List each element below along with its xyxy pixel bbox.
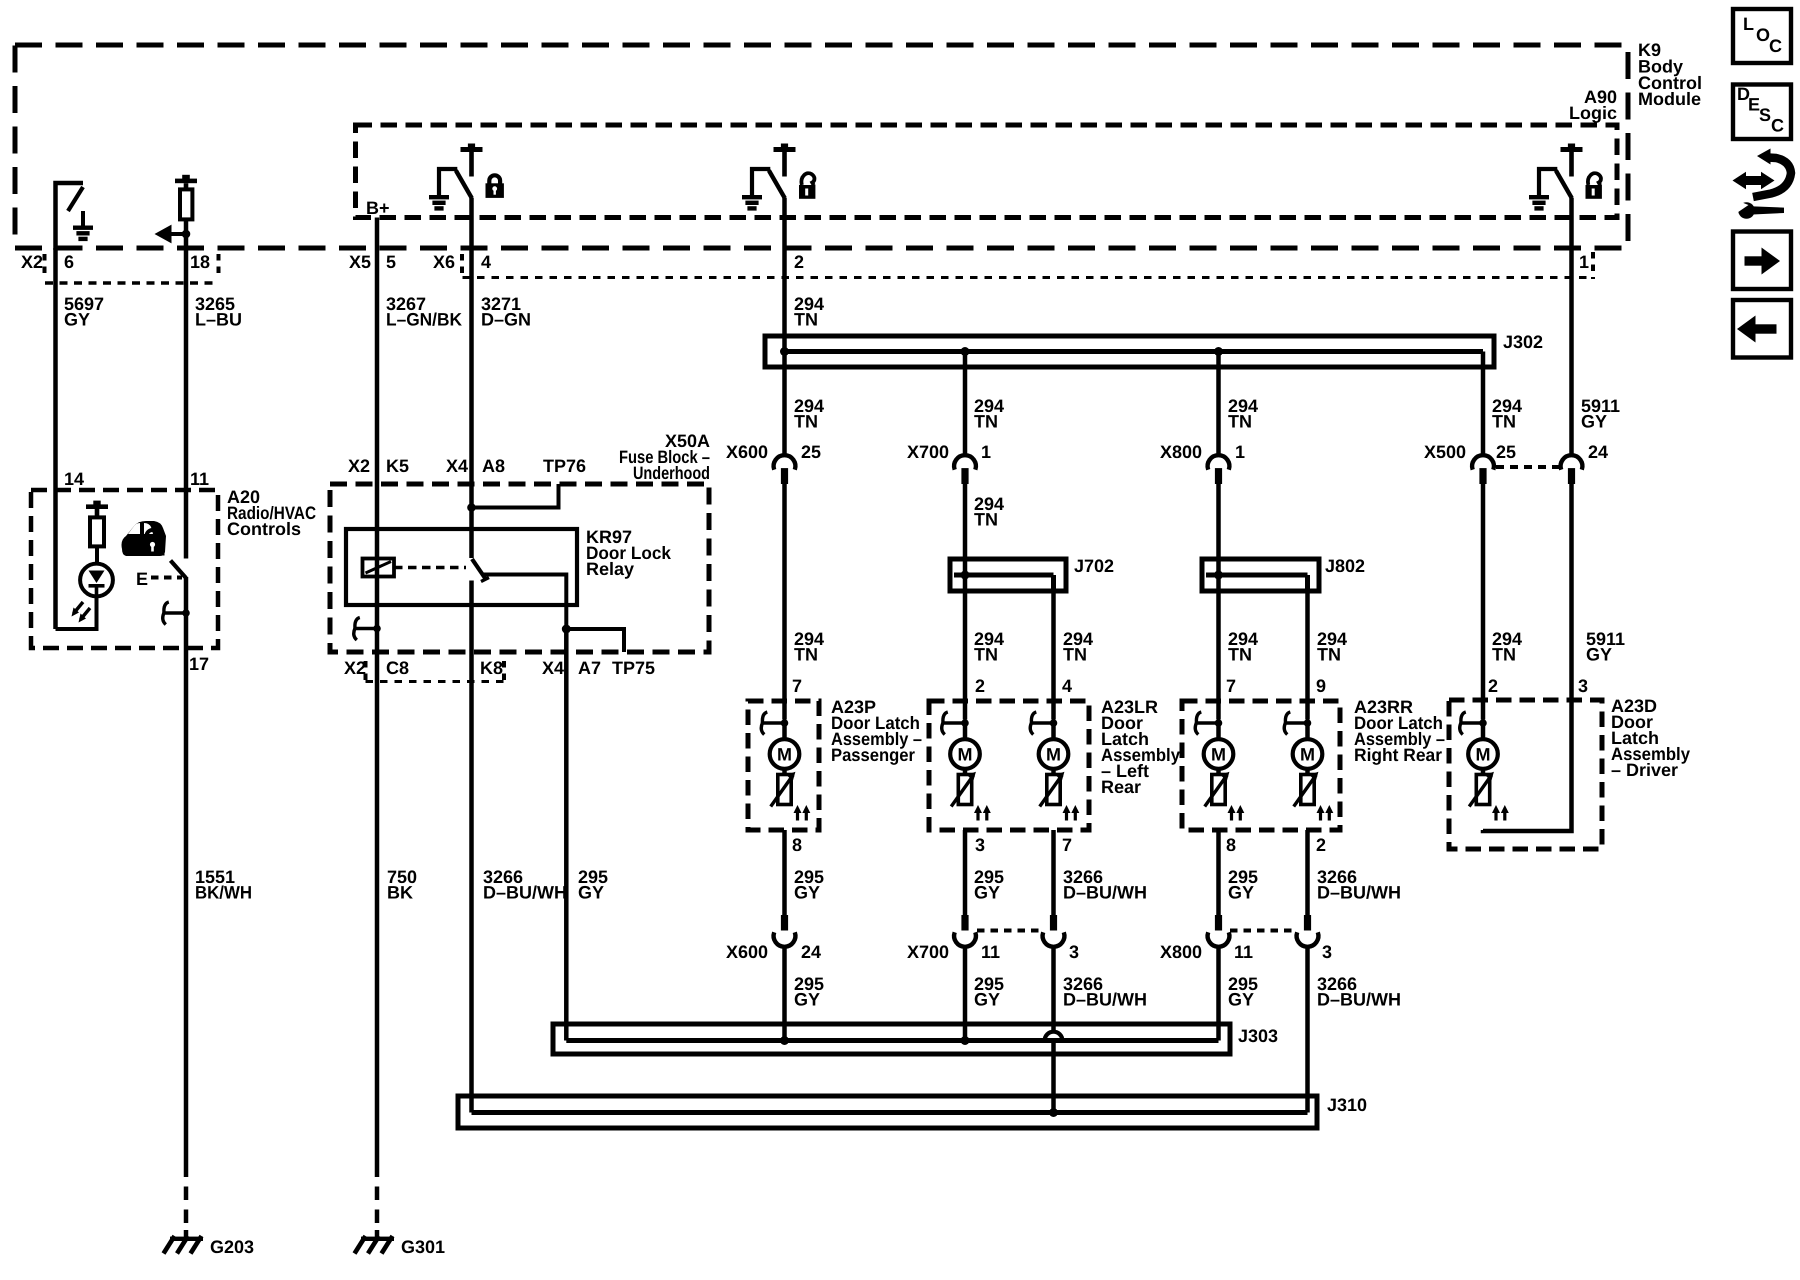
wire 294 TN X700-1 through J702 to A23LR pin 2 (965, 484, 1004, 701)
wire relay NO contact to A7/TP75 (483, 575, 566, 630)
svg-text:G203: G203 (210, 1237, 254, 1257)
wire dashed tail of 750 BK to ground G301 (375, 1187, 380, 1238)
connector X6 pin row of K9 (433, 252, 1593, 279)
svg-text:X2: X2 (348, 456, 370, 476)
connector X500 pin 24 (1561, 442, 1608, 484)
wire 295 GY X800-11 to J303 right end (1219, 948, 1259, 1041)
svg-text:TN: TN (1228, 645, 1252, 665)
svg-text:D–BU/WH: D–BU/WH (1317, 883, 1401, 903)
svg-text:TN: TN (1492, 412, 1516, 432)
resistor R2 with supply T inside A20 (86, 501, 108, 564)
svg-text:17: 17 (189, 654, 209, 674)
wire 5697 GY from BCM X2-6 to A20 pin 14 (56, 248, 105, 629)
motor M unlock actuator A23LR (942, 701, 991, 821)
icon box DESC (navigation sidebar) (1733, 84, 1791, 139)
svg-text:Module: Module (1638, 89, 1701, 109)
test point TP76 stub wire (472, 484, 559, 508)
wire 294 TN J302 to X500-25 (1483, 352, 1522, 455)
svg-text:BK/WH: BK/WH (195, 883, 252, 903)
fuse block bottom pin labels X2-C8, K8, X4-A7, TP75 (344, 658, 655, 682)
wire 3266 D-BU/WH X700-3 to J310 (hops over J303) (1045, 948, 1147, 1113)
icon open padlock (driver unlock command) (1586, 173, 1602, 199)
svg-text:L: L (1743, 14, 1754, 34)
wire 3266 D-BU/WH fuse block K8 to J310 (472, 652, 568, 1113)
svg-text:GY: GY (1586, 645, 1612, 665)
svg-text:24: 24 (1588, 442, 1608, 462)
svg-text:X700: X700 (907, 942, 949, 962)
svg-text:J310: J310 (1327, 1095, 1367, 1115)
svg-text:24: 24 (801, 942, 821, 962)
svg-text:GY: GY (1581, 412, 1607, 432)
wire dotted bridge X500 25-24 (1496, 465, 1560, 469)
svg-text:Underhood: Underhood (633, 463, 710, 483)
icon box back arrow (1733, 300, 1791, 358)
wire 295 GY X700-11 to J303 (965, 948, 1004, 1041)
wire 3266 D-BU/WH X800-3 to J310 right end (1308, 948, 1402, 1113)
dashed actuation link coil to armature (394, 566, 466, 569)
svg-text:L–GN/BK: L–GN/BK (386, 310, 462, 330)
svg-text:Controls: Controls (227, 519, 301, 539)
svg-text:L–BU: L–BU (195, 310, 242, 330)
svg-text:A7: A7 (578, 658, 601, 678)
svg-text:GY: GY (794, 883, 820, 903)
svg-text:TN: TN (794, 645, 818, 665)
splice pack J310 (bus bar) (458, 1095, 1367, 1128)
svg-text:TP75: TP75 (612, 658, 655, 678)
wire 294 TN from BCM X6-2 down through J302 to X600-25 (785, 198, 825, 455)
arrow output node (BCM pin X2-18) (155, 225, 191, 244)
svg-text:Rear: Rear (1101, 777, 1141, 797)
motor M unlock actuator A23RR (1195, 701, 1244, 821)
svg-text:D–BU/WH: D–BU/WH (1317, 990, 1401, 1010)
wire 294 TN J802 to A23RR pin 9 (1308, 575, 1348, 701)
resistor R1 with output arrow (BCM pin X2-18 driver) (175, 175, 197, 238)
wire 294 TN X500-25 to A23D pin 2 (1483, 484, 1522, 700)
wire 5911 GY from BCM X6-1 down to X500-24 (1572, 198, 1621, 455)
wire 1551 BK/WH A20-17 to ground G203 (186, 648, 252, 1237)
wire LED chain to pin 14 wire (56, 597, 97, 630)
node junction w6-J302 (780, 347, 789, 356)
module A23RR Door Latch Assembly - Right Rear (dashed enclosure) (1182, 697, 1445, 830)
node junction w6-J303 (780, 1036, 789, 1045)
svg-text:D–BU/WH: D–BU/WH (483, 883, 567, 903)
svg-text:D–BU/WH: D–BU/WH (1063, 990, 1147, 1010)
svg-text:J302: J302 (1503, 332, 1543, 352)
connector X800 pin 11 (1160, 915, 1253, 962)
module A20 Radio/HVAC Controls (dashed enclosure) (31, 487, 316, 648)
svg-text:X500: X500 (1424, 442, 1466, 462)
module A23P Door Latch Assembly - Passenger (dashed enclosure) (748, 697, 922, 830)
svg-text:– Driver: – Driver (1611, 760, 1678, 780)
svg-text:X800: X800 (1160, 442, 1202, 462)
svg-text:X6: X6 (433, 252, 455, 272)
svg-text:7: 7 (792, 676, 802, 696)
connector X700 pin 1 (907, 442, 991, 484)
svg-text:X4: X4 (446, 456, 468, 476)
wire dotted bridge X700 11-3 (977, 929, 1042, 933)
wire 3271 D-GN from BCM X6-4 to fuse block A8 (relay common) (472, 198, 532, 558)
svg-text:6: 6 (64, 252, 74, 272)
svg-text:GY: GY (64, 310, 90, 330)
connector X800 pin 3 (1297, 915, 1332, 962)
icon diagnostic double-arrow with wrench (1733, 149, 1792, 219)
wire 294 TN J302 to X800-1 (1219, 352, 1259, 455)
svg-text:Relay: Relay (586, 559, 634, 579)
wire 5911 GY X500-24 to A23D pin 3 (1572, 484, 1626, 700)
svg-text:8: 8 (792, 835, 802, 855)
icon box forward arrow (1733, 232, 1791, 290)
wire relay armature to K8 pin (469, 581, 474, 653)
relay KR97 Door Lock Relay (solid box) (346, 527, 672, 605)
motor M door lock actuator A23P (761, 701, 810, 821)
svg-text:A8: A8 (482, 456, 505, 476)
ground G301 (chassis) (355, 1236, 446, 1257)
module A90 Logic (dashed enclosure inside K9) (356, 87, 1618, 218)
svg-text:Logic: Logic (1569, 103, 1617, 123)
icon closed padlock (lock command) (486, 175, 504, 198)
wire 3267 L-GN/BK from B+ through X5-5 to fuse block K5 (relay coil) (377, 218, 462, 653)
svg-text:11: 11 (1234, 942, 1253, 962)
svg-text:8: 8 (1226, 835, 1236, 855)
transistor Q3 driver-door unlock output driver with ground (BCM pin X6-1) (1529, 144, 1583, 211)
relay coil KR97 (363, 559, 395, 577)
svg-text:C: C (1769, 36, 1782, 56)
svg-text:C8: C8 (386, 658, 409, 678)
svg-text:GY: GY (974, 990, 1000, 1010)
svg-text:GY: GY (794, 990, 820, 1010)
svg-text:S: S (1759, 105, 1771, 125)
svg-text:Right Rear: Right Rear (1354, 745, 1442, 765)
splice pack J702 (bus bar) (950, 556, 1114, 591)
splice pack J303 (bus bar) (553, 1024, 1278, 1054)
svg-text:X4: X4 (542, 658, 564, 678)
svg-text:TN: TN (974, 510, 998, 530)
module A23LR Door Latch Assembly - Left Rear (dashed enclosure) (929, 697, 1180, 830)
svg-text:4: 4 (481, 252, 491, 272)
svg-text:9: 9 (1316, 676, 1326, 696)
wire 294 TN J702 to A23LR pin 4 (1054, 575, 1094, 701)
switch S1 door-lock status switch to ground (BCM pin X2-6) (56, 183, 94, 250)
svg-text:J303: J303 (1238, 1026, 1278, 1046)
node junction w9-J302 (1214, 347, 1223, 356)
svg-text:11: 11 (981, 942, 1000, 962)
wire 295 GY A23P-8 to X600-24 (785, 830, 825, 915)
svg-text:GY: GY (578, 883, 604, 903)
svg-text:K8: K8 (480, 658, 503, 678)
icon car with padlock (lock indicator) inside A20 (122, 521, 167, 556)
connector X700 pin 3 (1043, 915, 1079, 962)
svg-text:3: 3 (1069, 942, 1079, 962)
node junction w7-J302 (961, 347, 970, 356)
label E (switch position) with dashed link (136, 569, 182, 589)
svg-text:D–BU/WH: D–BU/WH (1063, 883, 1147, 903)
node junction A7 output (562, 625, 571, 634)
wire 750 BK fuse block C8 to ground G301 (377, 652, 417, 1177)
motor M lock actuator A23RR (1284, 701, 1333, 821)
svg-text:X2: X2 (344, 658, 366, 678)
node junction w7-J702 (961, 571, 970, 580)
svg-text:Passenger: Passenger (831, 745, 915, 765)
connector X600 pin 25 (726, 442, 821, 484)
svg-text:TN: TN (794, 412, 818, 432)
transistor Q2 unlock output driver with ground (BCM pin X6-2) (742, 144, 796, 211)
test point TP75 stub wire (566, 629, 624, 652)
relay armature blade (switch) (472, 559, 489, 582)
svg-text:1: 1 (981, 442, 991, 462)
icon open padlock (unlock command) (799, 173, 815, 199)
svg-text:3: 3 (975, 835, 985, 855)
wire 294 TN J302 to X700-1 (965, 352, 1004, 455)
connector X600 pin 24 (726, 915, 821, 962)
svg-text:D–GN: D–GN (481, 310, 531, 330)
svg-text:11: 11 (190, 469, 209, 489)
svg-text:GY: GY (974, 883, 1000, 903)
terminal hook on relay coil wire (pin C8) (354, 618, 381, 641)
svg-text:1: 1 (1579, 252, 1589, 272)
svg-text:7: 7 (1226, 676, 1236, 696)
svg-text:TN: TN (1228, 412, 1252, 432)
svg-text:X600: X600 (726, 942, 768, 962)
svg-text:J702: J702 (1074, 556, 1114, 576)
svg-text:14: 14 (64, 469, 84, 489)
svg-text:K5: K5 (386, 456, 409, 476)
svg-text:2: 2 (1316, 835, 1326, 855)
svg-text:TN: TN (794, 310, 818, 330)
svg-text:X700: X700 (907, 442, 949, 462)
svg-text:B+: B+ (366, 198, 390, 218)
wire 295 GY X600-24 to J303 (785, 948, 825, 1041)
wire 3265 L-BU from BCM X2-18 to A20 pin 11 (186, 238, 242, 559)
svg-text:TN: TN (974, 412, 998, 432)
svg-text:TN: TN (1063, 645, 1087, 665)
switch S2 door lock switch inside A20 (171, 561, 187, 649)
icon box LOC (navigation sidebar) (1733, 9, 1791, 63)
svg-text:TN: TN (1492, 645, 1516, 665)
fuse block top pin labels X2-K5, X4-A8, TP76 (348, 456, 586, 476)
node junction TP76-A8 (467, 503, 476, 512)
wire 295 GY fuse block A7 to J303 (566, 629, 608, 1041)
connector X700 pin 11 (907, 915, 1000, 962)
motor M lock actuator A23LR (1030, 701, 1079, 821)
svg-text:C: C (1771, 116, 1784, 136)
svg-text:18: 18 (190, 252, 210, 272)
wire internal return A23D motor to pin 3 (1483, 700, 1572, 831)
svg-text:O: O (1756, 25, 1770, 45)
svg-text:4: 4 (1062, 676, 1072, 696)
wire dotted bridge X800 11-3 (1230, 929, 1296, 933)
svg-text:2: 2 (1488, 676, 1498, 696)
svg-text:25: 25 (1496, 442, 1516, 462)
svg-text:2: 2 (794, 252, 804, 272)
svg-text:5: 5 (386, 252, 396, 272)
node junction w7-J303 (961, 1036, 970, 1045)
svg-text:3: 3 (1578, 676, 1588, 696)
LED indicator lamp inside A20 (72, 564, 113, 623)
svg-text:GY: GY (1228, 883, 1254, 903)
connector X500 pin 25 (1424, 442, 1516, 484)
module X50A Fuse Block - Underhood (dashed enclosure) (330, 431, 710, 652)
svg-text:G301: G301 (401, 1237, 445, 1257)
wire 295 GY A23RR-8 to X800-11 (1219, 830, 1259, 915)
wire 3266 D-BU/WH A23RR-2 to X800-3 (1308, 830, 1402, 915)
node junction w9-J802 (1214, 571, 1223, 580)
connector X5 pin 5 label (349, 252, 396, 272)
svg-text:2: 2 (975, 676, 985, 696)
module A23D Door Latch Assembly - Driver (dashed enclosure) (1449, 696, 1690, 849)
splice pack J302 (bus bar) (765, 332, 1543, 367)
svg-text:X2: X2 (21, 252, 43, 272)
ground G203 (chassis) (164, 1236, 255, 1257)
svg-text:3: 3 (1322, 942, 1332, 962)
svg-text:TN: TN (974, 645, 998, 665)
connector X2 pin row of K9 (21, 252, 219, 283)
svg-text:25: 25 (801, 442, 821, 462)
module K9 Body Control Module (dashed enclosure) (15, 40, 1702, 248)
wire 3266 D-BU/WH A23LR-7 to X700-3 (1054, 830, 1148, 915)
svg-text:TN: TN (1317, 645, 1341, 665)
terminal hook on switch output (pin 17) (163, 602, 190, 625)
svg-text:X600: X600 (726, 442, 768, 462)
svg-text:GY: GY (1228, 990, 1254, 1010)
wire 295 GY A23LR-3 to X700-11 (965, 830, 1004, 915)
svg-text:TP76: TP76 (543, 456, 586, 476)
wire 294 TN X800-1 through J802 to A23RR pin 7 (1219, 484, 1259, 701)
svg-text:1: 1 (1235, 442, 1245, 462)
svg-text:BK: BK (387, 883, 413, 903)
svg-text:J802: J802 (1325, 556, 1365, 576)
transistor Q1 lock output driver with ground (BCM pin X6-4) (429, 144, 483, 211)
svg-text:E: E (136, 569, 148, 589)
svg-text:X800: X800 (1160, 942, 1202, 962)
svg-text:7: 7 (1062, 835, 1072, 855)
wire 294 TN X600-25 to A23P pin 7 (785, 484, 825, 701)
splice pack J802 (bus bar) (1202, 556, 1365, 591)
connector X800 pin 1 (1160, 442, 1245, 484)
motor M door lock actuator A23D (1460, 701, 1509, 821)
node junction w8-J310 (1049, 1108, 1058, 1117)
svg-text:X5: X5 (349, 252, 371, 272)
